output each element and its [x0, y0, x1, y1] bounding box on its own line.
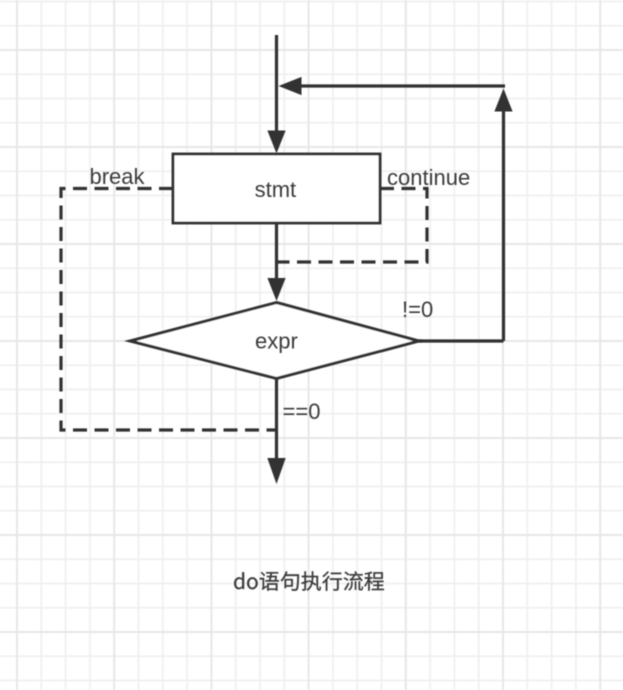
wire: top entry line into stmt	[275, 35, 278, 132]
arrowhead: feedback pointing left	[279, 77, 302, 95]
caption: do statement flow (CJK as paths)	[234, 571, 384, 590]
arrowhead: feedback pointing up	[494, 89, 512, 112]
decision diamond expr	[130, 303, 419, 379]
arrowhead: ==0 exit pointing down	[267, 458, 285, 484]
arrowhead: into stmt top	[267, 131, 285, 154]
wire: stmt to expr connector	[275, 223, 278, 279]
wire: expr bottom exit (==0 branch)	[275, 379, 278, 460]
wire: feedback horizontal line	[300, 84, 505, 87]
wire: continue dashed path	[278, 189, 427, 263]
process box stmt	[173, 154, 380, 223]
wire: break dashed path	[61, 189, 275, 431]
svg-text:stmt: stmt	[255, 177, 297, 202]
wire: expr right to feedback (!=0 branch)	[419, 339, 504, 342]
wire: feedback right vertical line	[502, 110, 505, 341]
svg-text:!=0: !=0	[402, 297, 433, 322]
svg-text:==0: ==0	[283, 399, 321, 424]
svg-text:expr: expr	[255, 329, 298, 354]
svg-text:break: break	[90, 164, 146, 189]
svg-text:continue: continue	[387, 165, 470, 190]
arrowhead: into expr top	[267, 278, 285, 301]
